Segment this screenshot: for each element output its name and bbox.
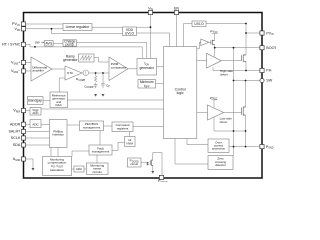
svg-text:management: management: [92, 150, 110, 154]
svg-text:interface: interface: [52, 133, 64, 137]
svg-text:AGND: AGND: [13, 157, 21, 162]
svg-text:management: management: [83, 126, 101, 130]
svg-text:PH: PH: [266, 69, 271, 73]
svg-text:Minimum: Minimum: [140, 80, 154, 84]
svg-text:VDD: VDD: [15, 27, 21, 32]
svg-text:UVLO: UVLO: [194, 22, 204, 26]
svg-text:Bandgap: Bandgap: [28, 99, 42, 103]
svg-text:SCLK: SCLK: [11, 136, 21, 140]
svg-text:logic: logic: [177, 91, 184, 95]
svg-text:ADDR: ADDR: [10, 122, 21, 126]
svg-text:BOOT: BOOT: [266, 46, 276, 50]
svg-text:SW: SW: [266, 79, 272, 83]
svg-text:circuit: circuit: [130, 162, 138, 166]
svg-text:CP: CP: [106, 84, 110, 89]
svg-text:Linear regulator: Linear regulator: [66, 25, 91, 29]
svg-text:generator: generator: [63, 58, 78, 62]
svg-text:RT / SYNC: RT / SYNC: [2, 43, 20, 47]
svg-text:circuits: circuits: [93, 170, 103, 174]
svg-text:calculation: calculation: [50, 168, 65, 172]
svg-text:VSNS+: VSNS+: [11, 61, 20, 66]
svg-text:AVG: AVG: [45, 41, 52, 45]
svg-text:driver: driver: [220, 73, 228, 77]
svg-text:ADC: ADC: [32, 111, 39, 115]
svg-text:PGND: PGND: [266, 145, 274, 150]
svg-text:PVCC: PVCC: [210, 29, 218, 34]
svg-text:pump: pump: [65, 43, 74, 47]
svg-text:protection: protection: [212, 147, 226, 151]
svg-text:UVLO: UVLO: [125, 31, 135, 35]
svg-text:ADC: ADC: [76, 167, 83, 171]
svg-text:comparator: comparator: [111, 66, 127, 70]
svg-text:generator: generator: [139, 66, 154, 70]
svg-text:detector: detector: [215, 163, 226, 167]
svg-text:OTA: OTA: [67, 71, 74, 75]
svg-text:VSNS−: VSNS−: [11, 69, 20, 74]
svg-text:SALRT: SALRT: [8, 130, 21, 134]
svg-text:amplifier: amplifier: [32, 69, 44, 73]
svg-text:ADC: ADC: [32, 122, 39, 126]
svg-text:SW: SW: [35, 40, 40, 44]
svg-text:DAC: DAC: [56, 103, 63, 107]
svg-text:EN: EN: [174, 6, 179, 10]
svg-text:VREF: VREF: [13, 109, 21, 114]
svg-text:registers: registers: [117, 127, 129, 131]
svg-text:CCOMP: CCOMP: [84, 85, 94, 90]
svg-text:RCOMP: RCOMP: [76, 77, 86, 82]
svg-text:SDA: SDA: [13, 143, 21, 147]
svg-text:driver: driver: [220, 120, 228, 124]
svg-text:PVIN: PVIN: [266, 31, 274, 36]
svg-text:PVCC: PVCC: [210, 96, 218, 101]
svg-text:NVM: NVM: [126, 141, 133, 145]
